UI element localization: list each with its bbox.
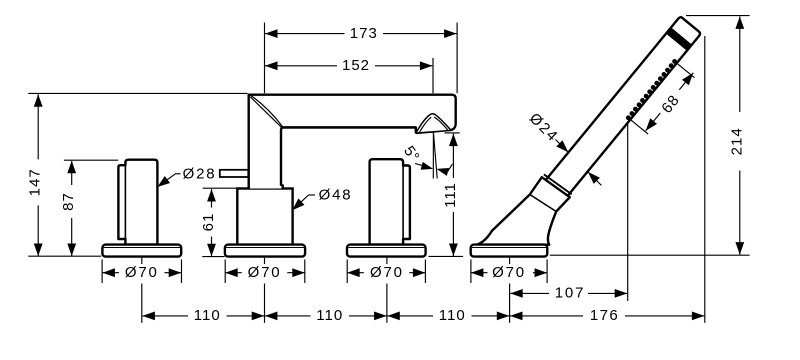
escutcheon base 3 [347,245,426,257]
label diameter 24 [526,110,602,186]
diverter stick [220,170,249,177]
aerator cone [416,114,450,132]
dimension 68 along wand [628,63,694,134]
svg-text:Ø48: Ø48 [319,187,353,204]
svg-text:214: 214 [728,127,745,155]
dimension 110 b [265,307,387,324]
reference line handle-top [64,159,118,161]
extension lines spout top dims [265,23,458,94]
svg-text:Ø70: Ø70 [370,264,404,281]
hand shower wand [542,17,700,201]
dimension 61 [200,189,217,256]
hot handle body (left) [118,160,157,245]
svg-text:Ø70: Ø70 [492,264,526,281]
svg-text:110: 110 [316,307,343,324]
dimension 147 [27,94,44,256]
escutcheon base 2 [225,245,305,257]
svg-text:152: 152 [342,57,370,74]
angle 5 deg indicator [400,132,452,179]
reference line deck left [28,255,101,257]
svg-text:Ø70: Ø70 [125,264,159,281]
dimension d70 base3 [347,264,425,281]
dimension 176 [510,307,704,324]
svg-text:111: 111 [442,182,459,208]
extension ticks base centers [142,258,510,323]
shower holster [477,174,572,244]
escutcheon base 1 [102,245,181,257]
svg-text:110: 110 [439,307,466,324]
reference line deck right [550,254,750,256]
escutcheon base 4 [471,245,548,257]
reference line column-top [203,187,237,189]
nozzle dots [626,59,677,120]
reference line aerator [445,132,460,134]
diameter 70 ticks [102,260,547,284]
reference line top-left [28,92,247,94]
svg-text:110: 110 [194,307,221,324]
reference line wand tip [686,15,750,17]
wand dark band [666,27,692,50]
dimension 152 [265,57,432,74]
svg-text:Ø28: Ø28 [183,165,217,182]
dimension d70 base1 [102,264,181,281]
spout outline [249,95,456,189]
dimension 111 [442,134,459,256]
svg-text:176: 176 [590,307,619,324]
dimension 173 [265,25,457,42]
spout column (body) [237,189,292,246]
svg-text:61: 61 [200,213,217,232]
reference line deck 111 [429,255,464,257]
reference line deck mid [202,256,224,258]
svg-text:Ø70: Ø70 [248,264,282,281]
svg-text:107: 107 [555,285,585,302]
dimension 110 c [387,307,509,324]
dimension d70 base4 [471,264,547,281]
dimension 107 [510,285,627,302]
label diameter 28 [157,165,216,187]
dimension d70 base2 [225,264,305,281]
extension line 176 right [704,36,706,323]
spout elbow mitre lines [250,96,282,128]
extension line 107 right [627,124,629,301]
svg-text:173: 173 [350,25,378,42]
dimension 214 [728,16,745,254]
label diameter 48 [292,187,352,211]
cold handle body (third) [370,159,410,244]
svg-text:87: 87 [60,192,77,211]
dimension 110 a [142,307,264,324]
svg-text:147: 147 [27,168,44,196]
dimension 87 [60,161,77,256]
